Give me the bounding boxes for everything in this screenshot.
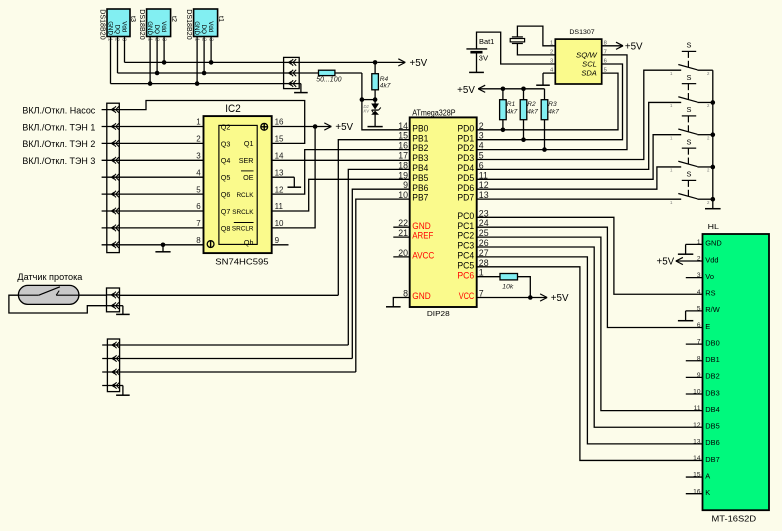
wire DQ to PB0 xyxy=(335,73,410,130)
svg-text:1: 1 xyxy=(196,118,201,127)
connector X1 (load control outputs, 9-pin) xyxy=(102,103,120,252)
wire B1 return loop xyxy=(9,295,107,313)
connector X3 (flow sensor, 2-pin) xyxy=(107,288,120,312)
wire IC2 pin16 +5V xyxy=(272,126,332,128)
svg-text:Vo: Vo xyxy=(705,272,714,281)
svg-text:PB0: PB0 xyxy=(412,123,428,133)
junction switch common xyxy=(711,165,716,170)
svg-text:+5V: +5V xyxy=(656,257,674,268)
wire PB6 down xyxy=(352,189,409,358)
power +5V (pullup rail) xyxy=(457,85,544,96)
label IC2 xyxy=(225,103,240,115)
svg-text:DQ: DQ xyxy=(113,25,120,34)
svg-text:PD4: PD4 xyxy=(457,163,474,173)
svg-text:+5V: +5V xyxy=(625,42,643,53)
svg-text:t2: t2 xyxy=(170,16,179,22)
wire S4 to common xyxy=(697,166,712,168)
junction R4 top xyxy=(373,60,378,65)
wire PB7 down xyxy=(356,199,410,372)
svg-text:PB4: PB4 xyxy=(412,163,428,173)
svg-text:DB1: DB1 xyxy=(705,355,719,364)
ground at IC2 OE xyxy=(272,177,301,187)
ground at connector X2 xyxy=(294,84,308,93)
IC2 pin numbers xyxy=(196,118,284,245)
svg-text:ВКЛ./Откл. Насос: ВКЛ./Откл. Насос xyxy=(22,105,95,115)
label MT-16S2D xyxy=(712,515,757,524)
wire IC2 Q1 to X1 pin1 xyxy=(119,101,304,144)
svg-text:PC3: PC3 xyxy=(457,241,474,251)
svg-text:Vdd: Vdd xyxy=(207,21,214,33)
junction R4 bottom xyxy=(373,97,378,102)
svg-text:Vdd: Vdd xyxy=(160,21,167,33)
svg-text:DB0: DB0 xyxy=(705,338,719,347)
shift register IC2 SN74HC595 xyxy=(204,116,272,253)
junction t1 GND xyxy=(195,81,200,86)
switch S3 (button) xyxy=(670,105,710,140)
svg-text:PC1: PC1 xyxy=(457,221,474,231)
battery Bat1 3V xyxy=(466,39,494,72)
svg-text:3: 3 xyxy=(207,38,213,41)
label DS1307 xyxy=(569,29,595,36)
svg-text:PB6: PB6 xyxy=(412,183,428,193)
svg-text:SQ/W: SQ/W xyxy=(576,53,598,60)
wire X1 pin6 to IC2 Q6 xyxy=(119,193,203,195)
svg-text:10: 10 xyxy=(275,219,284,228)
wire U1 VCC xyxy=(477,297,547,299)
junction t1 DQ xyxy=(202,71,207,76)
svg-text:GND: GND xyxy=(146,21,153,35)
wire S5 to common xyxy=(697,198,712,200)
wire IC2 Qh stub xyxy=(272,244,289,246)
power +5V (HL Vdd) xyxy=(656,257,702,268)
wire S2 to common xyxy=(697,101,712,103)
wire X1 pin5 to IC2 Q5 xyxy=(119,176,203,178)
svg-text:4k7: 4k7 xyxy=(380,83,391,90)
junction switch common xyxy=(711,132,716,137)
wire PC2 to DB4 xyxy=(477,237,703,411)
wire t3 pins to 1-wire buses xyxy=(111,37,125,84)
svg-text:E: E xyxy=(705,322,710,331)
wire SRCLR pullup xyxy=(272,127,315,228)
flow sensor B1 (reed) xyxy=(18,285,79,304)
label output ВКЛ./Откл. ТЭН 2 xyxy=(22,139,95,149)
wire SRCLK to PB5 xyxy=(272,179,410,211)
svg-text:ВКЛ./Откл. ТЭН 3: ВКЛ./Откл. ТЭН 3 xyxy=(22,156,95,166)
wire HL pin1 GND xyxy=(686,243,703,245)
svg-text:S: S xyxy=(687,170,692,179)
svg-text:SN74HC595: SN74HC595 xyxy=(215,256,269,266)
svg-text:DQ: DQ xyxy=(200,25,207,34)
svg-text:GND: GND xyxy=(412,221,431,231)
svg-text:14: 14 xyxy=(398,121,408,131)
svg-text:IC2: IC2 xyxy=(225,103,240,115)
svg-text:PD6: PD6 xyxy=(457,183,474,193)
svg-text:R2: R2 xyxy=(527,101,536,108)
svg-text:RCLK: RCLK xyxy=(236,192,254,199)
label DIP28 xyxy=(427,309,450,318)
svg-text:9: 9 xyxy=(275,236,280,245)
svg-text:SRCLR: SRCLR xyxy=(232,226,254,233)
svg-text:Q3: Q3 xyxy=(221,139,231,148)
temperature sensor DS18B20 t3 xyxy=(98,9,138,41)
wire X4 pin3 to PB7 xyxy=(120,371,356,373)
wire HL pin5 R/W xyxy=(686,310,703,312)
svg-text:DB3: DB3 xyxy=(705,388,719,397)
svg-text:3: 3 xyxy=(121,38,127,41)
wire B1 to X3 pin1 xyxy=(79,294,107,296)
svg-text:PB5: PB5 xyxy=(412,173,428,183)
wire SDA to PD0 xyxy=(477,73,618,130)
svg-text:4k7: 4k7 xyxy=(507,108,518,115)
wire Vdd bus (sensors to connector X2) xyxy=(125,61,284,63)
svg-text:R1: R1 xyxy=(507,101,516,108)
svg-text:5: 5 xyxy=(196,185,201,194)
svg-text:Q1: Q1 xyxy=(244,139,254,148)
svg-text:4k7: 4k7 xyxy=(527,108,538,115)
svg-text:Q6: Q6 xyxy=(221,190,231,199)
svg-text:SRCLK: SRCLK xyxy=(232,209,254,216)
svg-text:11: 11 xyxy=(275,202,284,211)
svg-text:16: 16 xyxy=(398,141,408,151)
svg-text:SDA: SDA xyxy=(581,71,597,78)
svg-text:K: K xyxy=(705,488,710,497)
svg-text:DB5: DB5 xyxy=(705,422,719,431)
svg-text:Q5: Q5 xyxy=(221,173,231,182)
wire GND bus (sensors to connector X2) xyxy=(111,83,284,85)
svg-text:PD1: PD1 xyxy=(457,133,474,143)
svg-text:S: S xyxy=(687,73,692,82)
svg-text:GND: GND xyxy=(106,21,113,35)
wire PD3 to S1 xyxy=(477,70,682,159)
wire PD6 to S4 xyxy=(477,167,682,189)
svg-text:SER: SER xyxy=(239,156,254,165)
svg-text:Qh: Qh xyxy=(244,238,254,247)
svg-text:DQ: DQ xyxy=(153,25,160,34)
svg-text:AREF: AREF xyxy=(412,231,433,241)
wire battery to U2 pin3 xyxy=(477,32,556,64)
junction DQ clamp branch xyxy=(360,97,365,102)
wire X4 pin1 to PB4 xyxy=(120,344,349,346)
wire t2 pins to 1-wire buses xyxy=(150,37,164,84)
svg-text:t3: t3 xyxy=(129,16,138,22)
ground at X3 pin2 xyxy=(116,306,130,315)
svg-text:VCC: VCC xyxy=(459,291,475,301)
wire PC5 to DB7 xyxy=(477,267,703,461)
svg-text:16: 16 xyxy=(275,118,284,127)
switch S5 (button) xyxy=(670,170,710,205)
svg-text:PD0: PD0 xyxy=(457,123,474,133)
wire PD5 to S3 xyxy=(477,135,682,180)
wire PC0 to RS xyxy=(477,217,703,294)
wire crystal to U2 pin2 xyxy=(517,44,555,55)
svg-text:4: 4 xyxy=(196,168,201,177)
wire PD4 to S2 xyxy=(477,102,682,169)
svg-text:DB7: DB7 xyxy=(705,455,719,464)
svg-text:GND: GND xyxy=(193,21,200,35)
svg-text:PD7: PD7 xyxy=(457,193,474,203)
svg-text:12: 12 xyxy=(275,185,284,194)
ground below D2 xyxy=(368,124,383,127)
svg-text:+5V: +5V xyxy=(335,122,353,133)
svg-text:14: 14 xyxy=(275,152,284,161)
svg-text:A: A xyxy=(705,471,710,480)
label HL xyxy=(708,222,719,231)
junction R3 bottom xyxy=(542,147,547,152)
junction t2 Vdd xyxy=(162,60,167,65)
svg-text:+5V: +5V xyxy=(410,58,428,69)
label ATmega328P xyxy=(412,108,455,117)
svg-text:PC6: PC6 xyxy=(457,270,474,280)
junction GND row xyxy=(161,243,166,248)
junction switch common xyxy=(711,100,716,105)
resistor R5 10k (reset pullup) xyxy=(500,274,518,291)
wire R5 to +5V xyxy=(518,277,531,298)
junction +5V/SRCLR xyxy=(313,124,318,129)
wire DQ bus (sensors to connector X2) xyxy=(118,72,284,74)
wire PD7 to S5 xyxy=(477,198,682,200)
power +5V (IC2) xyxy=(324,122,353,133)
wire U1 GND pin8 xyxy=(393,298,409,307)
svg-text:6: 6 xyxy=(196,202,201,211)
ground at X4 pin4 xyxy=(116,386,130,396)
svg-text:GND: GND xyxy=(412,291,431,301)
svg-text:2: 2 xyxy=(153,38,159,41)
wire S3 to common xyxy=(697,134,712,136)
wire RCLK to PB2 xyxy=(272,150,410,195)
svg-text:1: 1 xyxy=(193,38,199,41)
HL unconnected pin stubs xyxy=(686,278,703,494)
ground at U2 pin4 xyxy=(536,73,555,85)
svg-text:3: 3 xyxy=(196,152,201,161)
svg-text:PD3: PD3 xyxy=(457,153,474,163)
svg-text:2: 2 xyxy=(114,38,120,41)
wire X1 pin8 to IC2 Q8 xyxy=(119,227,203,229)
svg-text:DS18B20: DS18B20 xyxy=(138,9,147,40)
resistor R4 4k7 (1-wire pullup) xyxy=(372,62,391,99)
wire PB1 to flow sensor xyxy=(338,140,409,296)
label output ВКЛ./Откл. Насос xyxy=(22,105,95,115)
svg-text:Q7: Q7 xyxy=(221,207,231,216)
junction t1 Vdd xyxy=(209,60,214,65)
wire clamp branch xyxy=(362,99,375,101)
wire X4 pin2 to PB6 xyxy=(120,358,353,360)
ground at IC2 pin8 xyxy=(155,245,170,252)
junction t2 GND xyxy=(148,81,153,86)
wire SQW to PD2 xyxy=(477,55,627,150)
U2 pin numbers xyxy=(550,40,607,73)
wire X1 pin3 to IC2 Q3 xyxy=(119,142,203,144)
svg-text:ВКЛ./Откл. ТЭН 2: ВКЛ./Откл. ТЭН 2 xyxy=(22,139,95,149)
svg-text:1: 1 xyxy=(146,38,152,41)
switch S1 (button) xyxy=(670,41,710,76)
svg-text:2: 2 xyxy=(200,38,206,41)
svg-text:PC5: PC5 xyxy=(457,260,474,270)
svg-text:PB3: PB3 xyxy=(412,153,428,163)
svg-text:DB4: DB4 xyxy=(705,405,719,414)
switch common rail xyxy=(712,70,714,208)
svg-text:Q8: Q8 xyxy=(221,224,231,233)
svg-text:PB7: PB7 xyxy=(412,193,428,203)
svg-text:Vdd: Vdd xyxy=(705,255,718,264)
wire S1 to common xyxy=(697,69,712,71)
crystal Q1 32768Hz xyxy=(510,37,524,44)
svg-text:t1: t1 xyxy=(217,16,226,22)
resistor R3 4k7 (pullup) xyxy=(541,89,559,150)
wire PC3 to DB5 xyxy=(477,247,703,427)
wire X1 pin2 to IC2 Q2 xyxy=(119,126,203,128)
microcontroller U1 ATmega328P xyxy=(410,117,477,307)
stub AREF/GND/AVCC pins xyxy=(393,227,409,257)
svg-text:DIP28: DIP28 xyxy=(427,309,450,318)
ground at U1 pin8 xyxy=(386,306,401,308)
svg-text:DS1307: DS1307 xyxy=(569,29,595,36)
ground below switches xyxy=(705,208,721,210)
connector X2 (external DS18B20 sensors, 3-pin) xyxy=(284,57,300,88)
connector X4 (aux inputs, 4-pin) xyxy=(102,339,119,392)
svg-text:S: S xyxy=(687,137,692,146)
wire X1 pin7 to IC2 Q7 xyxy=(119,210,203,212)
junction VCC xyxy=(528,295,533,300)
svg-text:50...100: 50...100 xyxy=(316,77,341,84)
label output ВКЛ./Откл. ТЭН 3 xyxy=(22,156,95,166)
svg-text:10k: 10k xyxy=(502,283,514,290)
wire +5V to sensors Vdd xyxy=(299,61,375,63)
svg-text:19: 19 xyxy=(398,170,408,180)
svg-text:DS18B20: DS18B20 xyxy=(98,9,107,40)
HL pin numbers xyxy=(693,239,701,495)
svg-text:SCL: SCL xyxy=(582,62,597,69)
resistor R1 4k7 (pullup) xyxy=(500,89,518,130)
svg-text:PC0: PC0 xyxy=(457,211,474,221)
svg-text:S: S xyxy=(687,41,692,50)
svg-text:DB2: DB2 xyxy=(705,372,719,381)
wire PB4 down xyxy=(348,169,409,345)
RTC U2 DS1307 xyxy=(555,39,601,84)
svg-text:PC4: PC4 xyxy=(457,251,474,261)
svg-text:HL: HL xyxy=(708,222,719,231)
svg-text:3V: 3V xyxy=(479,56,489,63)
svg-text:2: 2 xyxy=(196,135,201,144)
wire PC6 to R5 xyxy=(477,276,500,278)
svg-text:GND: GND xyxy=(705,239,721,248)
svg-text:Q4: Q4 xyxy=(221,156,231,165)
wire DQ to resistor xyxy=(299,72,318,74)
wire PC1 to E xyxy=(477,227,703,327)
svg-text:Датчик протока: Датчик протока xyxy=(17,272,82,282)
power +5V (sensor rail) xyxy=(377,58,427,69)
ground at HL pin1 xyxy=(678,244,693,254)
svg-text:17: 17 xyxy=(398,151,408,161)
svg-text:ATmega328P: ATmega328P xyxy=(412,108,455,117)
svg-text:Q2: Q2 xyxy=(221,122,231,131)
junction R2 bottom xyxy=(521,137,526,142)
svg-text:PC2: PC2 xyxy=(457,231,474,241)
svg-text:13: 13 xyxy=(275,168,284,177)
svg-text:15: 15 xyxy=(275,135,284,144)
svg-text:1: 1 xyxy=(107,38,113,41)
svg-text:+5V: +5V xyxy=(551,293,569,304)
svg-text:DB6: DB6 xyxy=(705,438,719,447)
svg-text:ВКЛ./Откл. ТЭН 1: ВКЛ./Откл. ТЭН 1 xyxy=(22,122,95,132)
protection diode D2 (dual zener clamp) xyxy=(364,100,381,124)
svg-text:Vdd: Vdd xyxy=(120,21,127,33)
svg-text:RS: RS xyxy=(705,289,715,298)
svg-text:3: 3 xyxy=(160,38,166,41)
svg-text:Bat1: Bat1 xyxy=(479,39,494,46)
svg-text:R3: R3 xyxy=(548,101,557,108)
resistor R2 4k7 (pullup) xyxy=(520,89,538,140)
svg-text:AVCC: AVCC xyxy=(412,251,434,261)
wire X1 pin9 / IC2 pin8 GND row xyxy=(119,244,203,246)
wire t1 pins to 1-wire buses xyxy=(197,37,211,84)
temperature sensor DS18B20 t1 xyxy=(185,9,226,41)
svg-text:PB2: PB2 xyxy=(412,143,428,153)
svg-text:PD5: PD5 xyxy=(457,173,474,183)
junction rail R1 xyxy=(501,87,506,92)
svg-text:OE: OE xyxy=(243,173,254,182)
temperature sensor DS18B20 t2 xyxy=(138,9,179,41)
ground at HL pin5 xyxy=(678,311,693,321)
svg-text:DS18B20: DS18B20 xyxy=(185,9,194,40)
switch S2 (button) xyxy=(670,73,710,108)
junction switch common xyxy=(711,197,716,202)
power +5V (U1 VCC) xyxy=(540,293,569,304)
wire crystal to U2 pin1 xyxy=(517,26,555,46)
label output ВКЛ./Откл. ТЭН 1 xyxy=(22,122,95,132)
junction R1 bottom xyxy=(501,128,506,133)
svg-text:MT-16S2D: MT-16S2D xyxy=(712,515,757,524)
svg-text:4k7: 4k7 xyxy=(548,108,559,115)
svg-text:S: S xyxy=(687,105,692,114)
junction rail R2 xyxy=(521,87,526,92)
U1 pin numbers xyxy=(398,121,488,299)
resistor 50...100 (1-wire series) xyxy=(316,70,341,83)
wire PC4 to DB6 xyxy=(477,257,703,444)
svg-text:+5V: +5V xyxy=(457,85,475,96)
wire SER to PB3 xyxy=(272,159,410,161)
label SN74HC595 xyxy=(215,256,269,266)
svg-text:R/W: R/W xyxy=(705,305,719,314)
svg-text:PB1: PB1 xyxy=(412,133,428,143)
wire X3 pin1 to PB1 xyxy=(120,294,339,296)
switch S4 (button) xyxy=(670,137,710,172)
power +5V (U2 pin8) xyxy=(602,42,643,53)
junction t2 DQ xyxy=(155,71,160,76)
label flow sensor xyxy=(17,272,82,282)
svg-text:PD2: PD2 xyxy=(457,143,474,153)
svg-text:8: 8 xyxy=(196,236,201,245)
wire SCL to PD1 xyxy=(477,64,623,140)
LCD display HL MT-16S2D xyxy=(703,234,770,510)
wire X1 pin4 to IC2 Q4 xyxy=(119,159,203,161)
svg-text:7: 7 xyxy=(196,219,201,228)
